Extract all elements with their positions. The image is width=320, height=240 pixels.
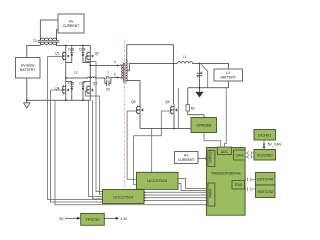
diode D26 [66, 46, 73, 63]
svg-text:D26: D26 [68, 48, 74, 52]
can transceiver ISO1050 [254, 150, 276, 161]
inductor L2 [66, 77, 105, 78]
svg-text:BATTERY: BATTERY [20, 68, 36, 72]
transformer T1 [40, 38, 56, 40]
box HV CURRENT 2 [175, 152, 199, 164]
regulator U5 TPS730 [81, 213, 105, 225]
wire UCC1 outputs to PWMs [178, 179, 206, 189]
isolation boundary red dashed [123, 41, 125, 190]
svg-text:UCC27524: UCC27524 [113, 194, 134, 199]
pin dots UCC27524 outputs [144, 192, 145, 201]
diode D27 [82, 82, 91, 101]
CMPSS block [208, 151, 215, 167]
svg-text:ISO7242: ISO7242 [257, 189, 274, 194]
capacitor output [197, 64, 203, 88]
transistor body arrows [67, 55, 177, 111]
svg-text:HV: HV [184, 153, 189, 157]
wire left leg mid [65, 60, 67, 85]
inductor L1 [177, 62, 199, 64]
op-amp U2 OPA365 [191, 118, 217, 133]
isolation channels CAN [246, 151, 255, 158]
svg-text:ADC: ADC [221, 150, 229, 154]
svg-text:3.3V: 3.3V [120, 217, 128, 221]
wire diagonal sense [201, 64, 208, 88]
wire L1 to LV battery [200, 64, 229, 70]
wire UCC2 outputs to PWMs [144, 179, 206, 201]
svg-text:CURRENT: CURRENT [63, 24, 80, 28]
isolation channels JTAG [245, 178, 256, 191]
CAN block [234, 150, 246, 160]
svg-text:Q6: Q6 [165, 100, 170, 104]
transistor Q6 [171, 104, 174, 114]
isolator ISO7240 [256, 173, 276, 186]
box HV BUS BATTERY [16, 58, 41, 79]
wire battery sense to ADC [225, 88, 227, 147]
transistor Q5 [137, 104, 140, 114]
wire ground rail LV [188, 87, 229, 89]
svg-text:Cb: Cb [106, 88, 110, 92]
wire rail to UCC1 top [151, 129, 153, 173]
microcontroller U1 TMS320F28004x [206, 148, 245, 216]
resistor Rs [188, 88, 204, 118]
wire battery to ground [26, 78, 28, 103]
svg-text:5V: 5V [59, 217, 64, 221]
svg-text:Q2: Q2 [95, 51, 100, 55]
transistor Q1 [62, 46, 65, 61]
diode D25 [66, 82, 73, 101]
PWMs block [208, 183, 215, 206]
wire center tap to L1 [127, 64, 177, 71]
svg-text:PWMs: PWMs [208, 188, 212, 198]
svg-text:HV BUS/: HV BUS/ [21, 63, 35, 67]
wire sense vertical [177, 88, 179, 129]
wire Q6 gate [134, 111, 171, 185]
wire HV bus battery to T1 primary [27, 43, 41, 58]
wire Q5 gate [127, 111, 137, 179]
svg-text:Rs: Rs [191, 107, 195, 111]
wire node a to transformer [90, 65, 120, 67]
svg-text:DCH01: DCH01 [258, 133, 272, 138]
svg-text:Q5: Q5 [131, 100, 136, 104]
ADC block [217, 147, 231, 154]
transformer T2 primary [120, 65, 123, 78]
ground LV [199, 88, 201, 92]
transformer T2 core [124, 63, 126, 82]
gate driver U4 UCC27524 lower [103, 190, 145, 204]
svg-text:TPS730: TPS730 [85, 217, 100, 222]
wire Q4 gate [51, 89, 63, 91]
dc-dc module DCH01 [254, 130, 276, 141]
ground HV [24, 103, 30, 108]
svg-text:D28: D28 [79, 48, 85, 52]
svg-text:BATTERY: BATTERY [221, 75, 237, 79]
wire gate bundle far left [48, 57, 207, 205]
svg-text:T1: T1 [33, 39, 37, 43]
box LV BATTERY [214, 69, 243, 81]
svg-text:a: a [114, 59, 116, 63]
wire OPA365 to ADC [204, 133, 221, 147]
gate driver U3 UCC27524 upper [137, 172, 179, 189]
box HV CURRENT 1 [58, 14, 84, 33]
svg-text:D25: D25 [68, 81, 74, 85]
svg-text:b: b [114, 72, 116, 76]
wire 5V arrow [65, 217, 78, 219]
wire secondary bottom to Q5 drain [126, 81, 140, 104]
wire 3.3V arrow [104, 217, 116, 219]
reference designator labels [33, 39, 195, 111]
svg-text:Q1: Q1 [55, 51, 60, 55]
svg-text:UCC27524: UCC27524 [147, 178, 168, 183]
svg-text:Q3: Q3 [93, 81, 98, 85]
wire LV battery bottom to ground rail [228, 81, 230, 88]
svg-text:ISO1050: ISO1050 [257, 153, 274, 158]
wire Q2 gate [86, 57, 96, 62]
wire T1 secondary to HV current box [40, 20, 58, 40]
svg-text:L2: L2 [74, 71, 78, 75]
svg-text:CURRENT: CURRENT [178, 158, 195, 162]
jumper J [107, 77, 109, 79]
svg-text:ISO7240: ISO7240 [257, 177, 274, 182]
wire secondary top loop to Q6 drain [126, 45, 173, 104]
capacitor Cb [105, 78, 120, 87]
wire T1 primary right to bridge top rail [57, 43, 91, 46]
wire right leg mid [89, 60, 91, 85]
wire bottom rail [27, 99, 90, 101]
transistor Q2 [87, 46, 90, 61]
svg-text:JTAG: JTAG [234, 183, 243, 187]
svg-text:D27: D27 [79, 81, 85, 85]
svg-text:CMPSS: CMPSS [208, 151, 212, 162]
svg-text:L1: L1 [183, 55, 187, 59]
JTAG block [232, 181, 245, 190]
diode D28 [82, 46, 91, 63]
wire Q1 gate [48, 56, 63, 58]
transistor Q3 [87, 85, 90, 100]
svg-text:OPA365: OPA365 [196, 123, 212, 128]
transistor Q4 [62, 85, 65, 100]
wire sources rail [140, 114, 191, 128]
arrow HV current to CMPSS [198, 157, 206, 159]
transformer T2 secondary [126, 60, 127, 81]
svg-text:CAN: CAN [236, 154, 244, 158]
wire Q3 gate [86, 91, 100, 96]
svg-text:HV: HV [69, 19, 74, 23]
svg-text:Q4: Q4 [55, 86, 60, 90]
isolator ISO7242 [256, 185, 276, 198]
junction dots [26, 45, 201, 130]
svg-text:5V_CAN: 5V_CAN [268, 143, 282, 147]
svg-text:T2: T2 [123, 81, 127, 85]
svg-text:TMS320F28004x: TMS320F28004x [211, 170, 241, 175]
arrow DCH01 to ISO1050 [263, 140, 265, 147]
